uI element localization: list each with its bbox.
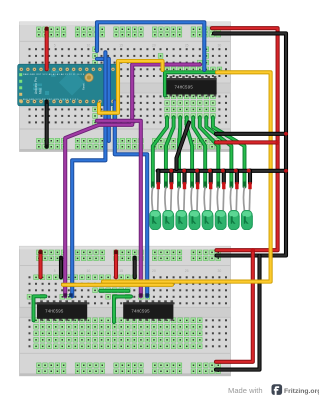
svg-text:Made with: Made with <box>228 386 263 395</box>
svg-text:15: 15 <box>119 43 123 47</box>
svg-text:Fritzing.org: Fritzing.org <box>284 388 319 395</box>
svg-text:5: 5 <box>54 269 56 273</box>
svg-text:Arduino Pro: Arduino Pro <box>34 77 38 94</box>
svg-text:10: 10 <box>86 269 90 273</box>
svg-text:30: 30 <box>217 269 221 273</box>
svg-text:20: 20 <box>152 43 156 47</box>
svg-text:74HC595: 74HC595 <box>45 310 64 315</box>
svg-text:Reset: Reset <box>82 83 86 90</box>
svg-text:5: 5 <box>54 43 56 47</box>
svg-text:BLK GND VCC RXI TXO GRN 2 3 4: BLK GND VCC RXI TXO GRN 2 3 4 5 6 7 8 9 <box>23 99 79 101</box>
svg-text:20: 20 <box>152 269 156 273</box>
svg-text:RAW GND RST VCC A3 A2 A1 A0 13: RAW GND RST VCC A3 A2 A1 A0 13 12 11 10 … <box>23 73 85 76</box>
svg-text:74HC595: 74HC595 <box>131 310 150 315</box>
svg-text:30: 30 <box>217 43 221 47</box>
svg-text:15: 15 <box>119 269 123 273</box>
svg-text:25: 25 <box>185 43 189 47</box>
svg-text:10: 10 <box>86 43 90 47</box>
svg-text:Mini: Mini <box>39 88 43 94</box>
svg-text:25: 25 <box>185 269 189 273</box>
svg-text:74HC595: 74HC595 <box>174 85 193 90</box>
